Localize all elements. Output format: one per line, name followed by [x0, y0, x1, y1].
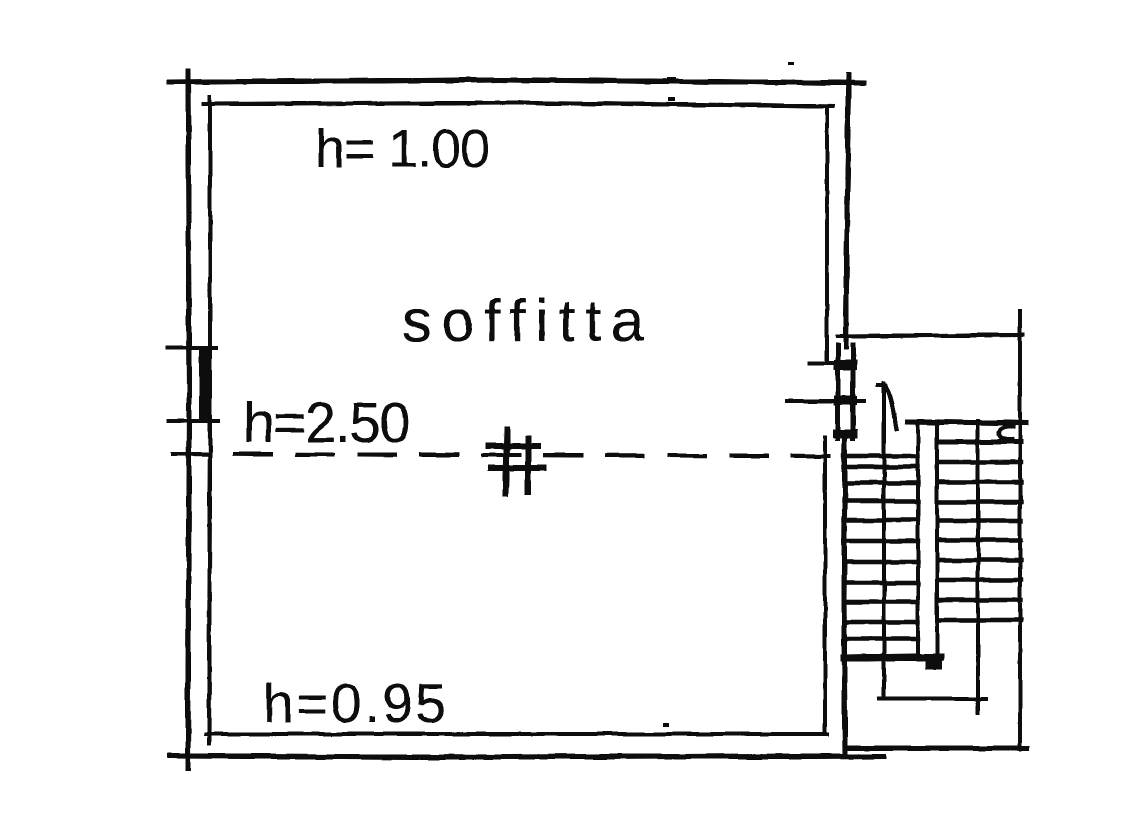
wire: door jamb right line [851, 345, 856, 438]
wire: main room outer top wall [169, 80, 864, 83]
svg-text:soffitta: soffitta [402, 288, 644, 354]
node: scan speck 2 [668, 97, 675, 101]
stair walking line left flight [882, 383, 886, 697]
node: scan speck 3 [788, 62, 794, 65]
wire: main room inner right wall upper segment [825, 110, 829, 363]
wire: main room outer right wall upper [846, 75, 849, 347]
door swing arc [878, 385, 896, 429]
wire: door sill tick right wall [787, 399, 864, 403]
wire: main room inner left wall [209, 97, 210, 744]
node: hatch symbol vertical 2 [525, 438, 531, 492]
svg-text:h=2.50: h=2.50 [243, 391, 411, 455]
wire: left wall tick lower [169, 419, 218, 423]
wire: center dashed line h=2.50 level [173, 454, 829, 456]
node: divider bottom blob [925, 657, 942, 669]
node: door jamb cross bar upper [834, 360, 857, 370]
node: hatch symbol horizontal 2 [491, 465, 544, 471]
wire: stair enclosure right wall [1018, 311, 1022, 749]
stair divider left stringer [916, 424, 920, 658]
node: hatch symbol vertical 1 [506, 430, 507, 494]
wire: main room inner top wall [204, 103, 833, 106]
wire: left wall tick upper [168, 346, 216, 350]
wire: main room inner bottom wall [206, 732, 827, 736]
wire: main room outer left wall [188, 71, 189, 768]
node: hatch symbol horizontal 1 [489, 443, 538, 449]
wire: stair enclosure bottom wall [846, 746, 1027, 751]
wire: main room outer right wall lower [844, 435, 845, 756]
wire: main room inner right wall lower segment [823, 438, 827, 734]
wire: stair enclosure top wall [838, 335, 1023, 336]
node: door jamb cross bar lower [833, 429, 858, 438]
stair right flight top thick edge [907, 422, 1026, 423]
node: left wall pier fill [199, 349, 212, 423]
stair left flight treads [844, 456, 918, 639]
stair right flight treads [938, 442, 1021, 620]
wire: door jamb left line [836, 345, 841, 438]
node: curl mark top right of stairs [999, 427, 1013, 440]
stair walking line right flight [976, 421, 980, 713]
svg-text:h= 1.00: h= 1.00 [315, 119, 490, 179]
node: door jamb cross bar mid [834, 396, 857, 405]
wire: door jamb tick upper right wall [809, 361, 832, 365]
stair walking line bottom [879, 697, 986, 701]
svg-text:h=0.95: h=0.95 [263, 672, 446, 734]
node: scan speck 1 [667, 77, 676, 80]
stair divider right stringer [935, 421, 939, 658]
node: scan speck 4 [663, 723, 669, 727]
stair left flight bottom thick tread [844, 657, 941, 658]
wire: main room outer bottom wall [170, 756, 884, 757]
